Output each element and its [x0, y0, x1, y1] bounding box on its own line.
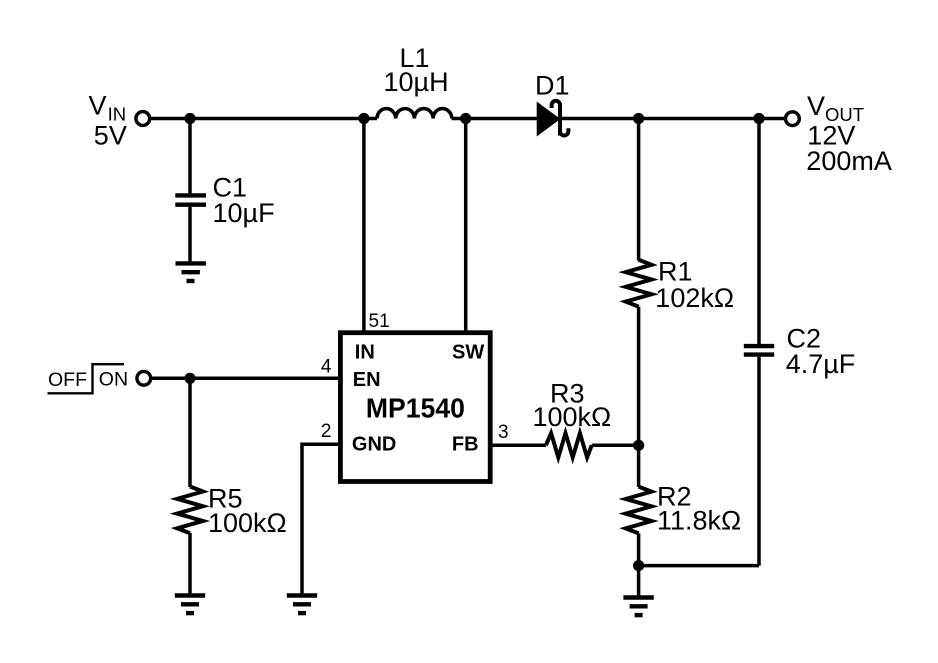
wire GND pin: [302, 444, 340, 595]
diode D1 (schottky): [537, 101, 568, 136]
label R3 100k: [533, 379, 612, 433]
wire bottom rail to C2: [639, 564, 759, 568]
svg-text:4: 4: [321, 357, 332, 378]
label C1 10uF: [213, 173, 275, 229]
wire C2 top: [757, 119, 761, 345]
wire R2 top: [637, 445, 641, 487]
svg-text:2: 2: [321, 421, 332, 442]
svg-text:V: V: [807, 91, 825, 121]
svg-text:ON: ON: [99, 369, 128, 391]
svg-text:200mA: 200mA: [806, 146, 892, 176]
ground (R5): [175, 596, 205, 614]
wire C1 to ground: [188, 207, 192, 263]
resistor R5: [177, 487, 203, 534]
label R5 100k: [208, 484, 287, 539]
wire top rail right (L1 to VOUT): [452, 117, 785, 121]
wire SW pin: [464, 119, 468, 334]
wire R3 to FB node: [592, 444, 639, 448]
svg-text:100kΩ: 100kΩ: [208, 508, 287, 538]
svg-text:V: V: [89, 91, 107, 121]
svg-text:3: 3: [498, 422, 509, 443]
wire IN pin: [362, 119, 366, 334]
label VOUT 12V 200mA: [806, 91, 892, 176]
terminal VIN: [136, 112, 150, 126]
svg-text:FB: FB: [452, 434, 479, 456]
svg-text:11.8kΩ: 11.8kΩ: [657, 506, 741, 536]
wire R1 to FB node: [637, 307, 641, 446]
node FB junction: [633, 440, 644, 451]
terminal EN: [137, 371, 151, 385]
node R1 junction: [633, 113, 644, 124]
wire R1 top: [637, 119, 641, 261]
svg-text:R1: R1: [658, 256, 693, 286]
node C1 junction: [184, 113, 195, 124]
svg-text:10µF: 10µF: [213, 198, 275, 228]
svg-text:IN: IN: [355, 342, 375, 364]
wire FB pin: [490, 444, 546, 448]
terminal VOUT: [786, 112, 800, 126]
svg-text:51: 51: [369, 311, 390, 332]
wire EN: [152, 377, 341, 381]
label OFF/ON: [48, 364, 129, 393]
resistor R2: [626, 487, 652, 534]
node R2/C2 bottom junction: [633, 560, 644, 571]
svg-text:OFF: OFF: [48, 369, 87, 391]
svg-text:D1: D1: [535, 71, 570, 101]
node C2 junction: [753, 113, 764, 124]
label R1 102k: [655, 256, 734, 313]
op-amp U1 MP1540 IC box: [340, 333, 490, 482]
node R5 junction: [184, 373, 195, 384]
svg-text:10µH: 10µH: [384, 67, 449, 97]
resistor R1: [626, 260, 652, 307]
capacitor C2: [744, 346, 774, 355]
ground (C1): [176, 263, 206, 281]
node SW junction: [460, 113, 471, 124]
label VIN 5V: [89, 91, 127, 151]
inductor L1: [377, 109, 452, 119]
resistor R3: [546, 433, 592, 457]
node IN junction: [358, 113, 369, 124]
svg-text:100kΩ: 100kΩ: [533, 402, 612, 432]
svg-text:EN: EN: [353, 369, 381, 391]
svg-text:4.7µF: 4.7µF: [786, 349, 856, 379]
wire bottom node to ground: [637, 566, 641, 597]
label R2 11.8k: [657, 482, 741, 536]
svg-text:102kΩ: 102kΩ: [655, 283, 734, 313]
label L1 10uH: [384, 43, 449, 97]
wire R5 top: [188, 378, 192, 487]
ground (output divider): [623, 598, 653, 616]
wire C1 branch: [188, 119, 192, 194]
capacitor C1: [175, 195, 206, 204]
wire top rail left (VIN to L1): [151, 117, 378, 121]
wire R2 bottom: [637, 533, 641, 565]
svg-text:SW: SW: [452, 342, 484, 364]
svg-text:GND: GND: [352, 434, 396, 456]
wire R5 to ground: [188, 533, 192, 595]
wire C2 bottom: [757, 357, 761, 566]
label C2 4.7uF: [786, 323, 856, 379]
ground (IC GND): [287, 596, 317, 614]
svg-text:MP1540: MP1540: [366, 393, 465, 424]
svg-text:5V: 5V: [94, 121, 127, 151]
